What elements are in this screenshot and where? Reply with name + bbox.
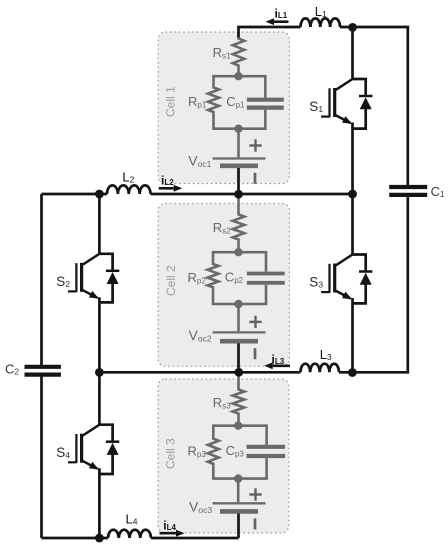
wire mid1 right segment: [151, 193, 353, 196]
wire RC to battery cell3: [237, 479, 240, 503]
wire node to Rs3: [237, 372, 240, 389]
transistor S2 (IGBT with diode): [56, 254, 119, 303]
node L3/C1 junction: [348, 368, 357, 377]
wire bottom left segment: [42, 537, 109, 540]
wire S2 branch upper: [98, 194, 101, 254]
wire S4 to bottom wire: [98, 474, 101, 538]
resistor Rs2: [213, 213, 245, 252]
wire bottom right segment: [151, 537, 239, 540]
svg-text:L2: L2: [122, 169, 134, 184]
wire Voc3 to bottom wire: [237, 514, 240, 538]
cell model box Cell 1: [158, 32, 289, 184]
wire C2 down to bottom left corner: [40, 377, 43, 538]
transistor S4 (IGBT with diode): [56, 425, 119, 474]
wire L3 to junction: [339, 371, 353, 374]
cell model box Cell 2: [158, 204, 289, 367]
capacitor Cp2: [225, 269, 285, 285]
capacitor Cp1: [226, 94, 284, 110]
voltage source Voc2: [189, 316, 266, 360]
svg-text:L4: L4: [126, 511, 138, 526]
wire Voc1 to node: [237, 168, 240, 194]
wire S2 to node: [98, 302, 101, 372]
wire S3 to node: [351, 303, 354, 372]
node L2/S2 junction: [95, 190, 104, 199]
node between RC pair and Voc1: [234, 125, 242, 133]
wire C1 down to lower right corner: [353, 197, 408, 372]
wire L1 to right edge down to C1: [340, 27, 408, 185]
svg-text:C1: C1: [431, 184, 445, 199]
resistor Rp2: [188, 262, 219, 289]
svg-text:S4: S4: [56, 445, 70, 460]
inductor L4: [108, 511, 151, 538]
wire top-left from Rs1 to L1: [239, 27, 301, 38]
wire mid2 left segment: [99, 371, 300, 374]
svg-text:S3: S3: [309, 275, 323, 290]
wire S1 to node: [351, 129, 354, 194]
svg-text:Cell 3: Cell 3: [164, 438, 178, 469]
node cell2/cell3 junction: [234, 368, 243, 377]
voltage source Voc1: [188, 139, 265, 184]
svg-text:Cell 2: Cell 2: [164, 265, 178, 296]
node between Rs3 and RC pair: [234, 422, 242, 430]
svg-text:iL1: iL1: [275, 6, 288, 20]
svg-text:C2: C2: [5, 362, 19, 377]
node between Rs2 and RC pair: [234, 248, 242, 256]
transistor S3 (IGBT with diode): [309, 255, 372, 304]
svg-text:S1: S1: [309, 99, 323, 114]
wire node to Rs2: [237, 194, 240, 214]
node between Rs1 and RC pair: [234, 72, 242, 80]
node S1/S3 junction: [348, 190, 357, 199]
voltage source Voc3: [189, 488, 266, 529]
node S4/bottom junction: [95, 534, 104, 543]
resistor Rp1: [188, 86, 219, 115]
current label iL3: [264, 353, 290, 370]
capacitor C2: [5, 362, 61, 377]
node S2/S4 mid junction: [95, 368, 104, 377]
resistor Rs1: [213, 37, 245, 76]
wire S3 branch upper: [351, 194, 354, 255]
wire Voc2 to node: [237, 343, 240, 372]
inductor L1: [301, 4, 341, 27]
svg-text:S2: S2: [56, 274, 70, 289]
current label iL1: [266, 6, 289, 25]
current label iL4: [160, 519, 185, 537]
wire RC to battery cell1: [237, 129, 240, 158]
transistor S1 (IGBT with diode): [309, 79, 372, 129]
inductor L3: [301, 347, 339, 373]
resistor Rs3: [213, 388, 245, 426]
wire junction to S1: [351, 27, 354, 79]
capacitor Cp3: [226, 443, 286, 459]
RC loop rails cell 2: [213, 252, 266, 304]
node cell1/cell2 junction: [234, 190, 243, 199]
capacitor C1: [389, 184, 445, 199]
resistor Rp3: [188, 437, 219, 466]
wire left edge down to C2: [40, 194, 43, 365]
current label iL2: [159, 174, 183, 192]
wire S4 branch upper: [98, 372, 101, 424]
wire mid1 left segment: [42, 193, 108, 196]
wire RC to battery cell2: [237, 304, 240, 331]
cell model box Cell 3: [158, 379, 289, 533]
svg-text:L1: L1: [315, 4, 327, 19]
svg-text:L3: L3: [320, 347, 332, 362]
svg-text:Cell 1: Cell 1: [164, 86, 178, 117]
inductor L2: [107, 169, 151, 194]
node L1/S1 junction: [348, 23, 357, 32]
RC loop rails cell 3: [213, 426, 266, 479]
node between RC pair and Voc3: [234, 474, 242, 482]
node between RC pair and Voc2: [234, 300, 242, 308]
RC loop rails cell 1: [214, 76, 266, 129]
